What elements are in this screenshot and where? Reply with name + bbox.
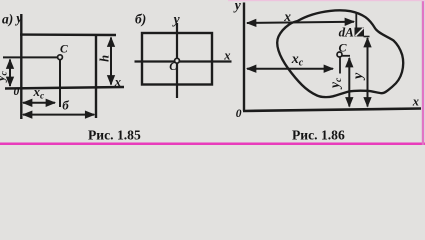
svg-text:0: 0 [14,86,20,98]
center C circle (fig б) [175,58,180,63]
svg-text:Рис. 1.85: Рис. 1.85 [88,128,141,143]
svg-text:y: y [233,0,242,13]
y-axis (fig a) [20,14,22,119]
dimension b width (fig a) [23,114,94,116]
vertical leader below C (fig a) [59,60,61,107]
magenta right border [422,0,424,145]
svg-text:h: h [98,55,112,62]
svg-text:б): б) [135,12,146,27]
extension below C (1.86) [339,57,341,74]
dimension yc (1.86) [348,58,350,107]
svg-text:x: x [283,9,291,24]
horizontal leader through C (fig a) [3,56,57,58]
centroid C circle (1.86) [337,52,342,57]
paper background [0,0,425,145]
svg-text:dA: dA [339,24,355,39]
dimension xc (fig a) [23,102,55,104]
x-axis (1.86) [243,109,421,112]
svg-text:у: у [351,72,366,81]
small tick from square to y-dimension (1.86) [364,36,370,38]
svg-text:x: x [114,75,121,89]
faint pink top edge line [228,0,425,1]
x-axis (fig a) [5,87,124,89]
rectangle top edge (fig a) [20,33,116,36]
svg-text:y: y [14,10,23,25]
blob outline (1.86) [277,10,403,97]
svg-text:x: x [223,49,230,63]
svg-text:Рис. 1.86: Рис. 1.86 [292,128,345,143]
x-axis (fig б) [135,60,232,62]
magenta bottom border [0,143,425,146]
svg-text:x: x [412,95,419,109]
svg-text:C: C [60,44,68,56]
svg-text:б: б [62,97,69,112]
svg-text:C: C [339,41,348,55]
extension line above dA (1.86) [355,13,357,28]
svg-text:y: y [172,12,181,27]
svg-text:0: 0 [236,108,242,120]
dimension y of dA (1.86) [367,38,369,107]
y-axis (fig б) [176,23,178,98]
dimension h (fig a) [110,38,112,85]
dimension xc (1.86) [247,68,333,70]
dimension yc (fig a) [9,60,11,87]
rectangle (fig б) [142,33,212,85]
y-axis (1.86) [243,3,245,111]
rectangle right edge (fig a) [95,34,97,118]
leader from C to yc dimension (1.86) [342,55,350,57]
svg-text:C: C [169,61,177,73]
element dA square hatched (1.86) [355,28,365,37]
centroid C circle (fig a) [58,55,63,60]
dimension x to dA (1.86) [247,22,354,23]
svg-text:а): а) [2,11,13,26]
